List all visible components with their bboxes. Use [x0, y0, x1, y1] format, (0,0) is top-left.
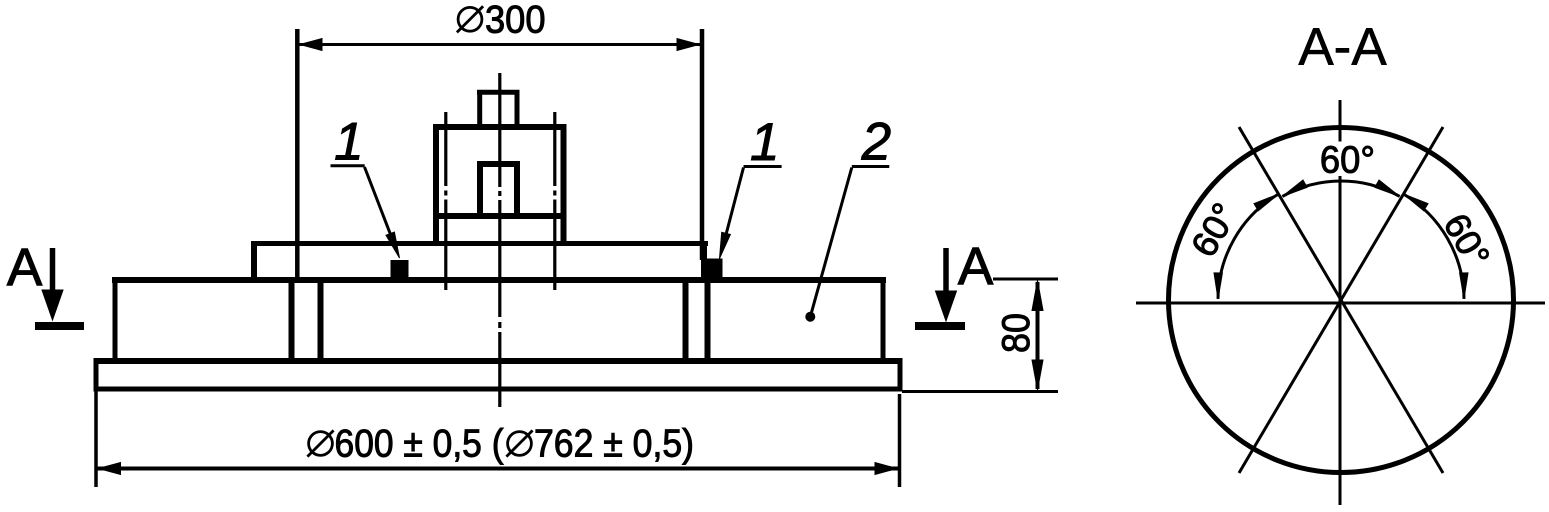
vertical centerline [1339, 100, 1342, 142]
horizontal centerline [1136, 302, 1545, 305]
svg-text:762 ± 0,5): 762 ± 0,5) [534, 423, 694, 466]
dim 80 [993, 278, 1058, 281]
block ribs [289, 283, 295, 359]
svg-text:1: 1 [334, 113, 363, 172]
tower inner box [477, 161, 520, 167]
base plate [94, 358, 903, 364]
ring block item 2 [112, 277, 886, 283]
tower top box [477, 90, 520, 95]
section circle [1169, 128, 1514, 473]
svg-text:600 ± 0,5 (: 600 ± 0,5 ( [335, 423, 504, 466]
bolt centerline right [553, 112, 556, 186]
dia300 dimension [295, 29, 300, 277]
top angle arc [1282, 181, 1399, 196]
svg-text:2: 2 [861, 113, 891, 172]
svg-text:A: A [7, 238, 43, 297]
tower big box [433, 124, 567, 130]
svg-text:A-A: A-A [1298, 18, 1387, 77]
diagonal 1 [1239, 127, 1443, 473]
svg-text:80: 80 [995, 313, 1038, 353]
clamp item 1 left [391, 261, 408, 278]
svg-text:A: A [958, 237, 994, 296]
left angle arc [1218, 194, 1279, 299]
main centerline [498, 73, 501, 187]
upper plate [251, 241, 708, 246]
svg-text:1: 1 [750, 113, 779, 172]
svg-text:60°: 60° [1320, 140, 1375, 182]
svg-text:300: 300 [485, 0, 546, 42]
dia600 label [309, 432, 333, 456]
svg-text:60°: 60° [1436, 206, 1499, 274]
dia300 label [458, 7, 482, 31]
bolt centerline left [444, 112, 447, 186]
svg-text:60°: 60° [1183, 196, 1246, 264]
diagonal 2 [1239, 127, 1443, 473]
dia600 dimension [94, 392, 98, 488]
right angle arc [1403, 194, 1464, 299]
clamp item 1 right [706, 259, 722, 277]
